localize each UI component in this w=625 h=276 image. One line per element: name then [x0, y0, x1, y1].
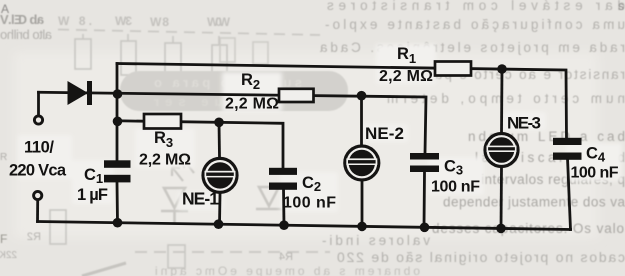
svg-text:uma configuração bastante expl: uma configuração bastante explo- — [325, 17, 625, 32]
svg-text:NE-1: NE-1 — [182, 189, 219, 209]
svg-text:22K: 22K — [0, 250, 17, 261]
svg-text:R4: R4 — [279, 251, 293, 263]
svg-text:alto brilho: alto brilho — [0, 27, 52, 42]
svg-text:NE-3: NE-3 — [507, 114, 541, 133]
svg-text:W0W: W0W — [206, 15, 230, 29]
svg-text:2,2 MΩ: 2,2 MΩ — [379, 68, 433, 85]
svg-text:100 nF: 100 nF — [283, 195, 336, 212]
svg-text:R2: R2 — [27, 231, 41, 243]
svg-text:8 W: 8 W — [149, 15, 169, 29]
svg-text:110/: 110/ — [24, 139, 54, 157]
svg-text:100 nF: 100 nF — [571, 165, 619, 182]
svg-text:depender justamente dos va: depender justamente dos va — [443, 195, 625, 210]
svg-text:3W: 3W — [114, 14, 132, 28]
svg-text:1 µF: 1 µF — [77, 186, 108, 204]
svg-text:A: A — [1, 2, 9, 16]
svg-text:220 Vca: 220 Vca — [9, 162, 67, 180]
svg-text:cados no projeto original são: cados no projeto original são de 220 — [337, 249, 625, 265]
svg-text:2,2 MΩ: 2,2 MΩ — [139, 152, 191, 169]
svg-text:NE-2: NE-2 — [365, 124, 404, 143]
svg-text:2,2 MΩ: 2,2 MΩ — [225, 96, 279, 113]
svg-text:valores indi-: valores indi- — [322, 233, 430, 248]
svg-text:s: s — [618, 0, 624, 13]
svg-text:F: F — [0, 232, 7, 246]
svg-text:R: R — [0, 152, 7, 163]
svg-text:100 nF: 100 nF — [431, 179, 480, 196]
